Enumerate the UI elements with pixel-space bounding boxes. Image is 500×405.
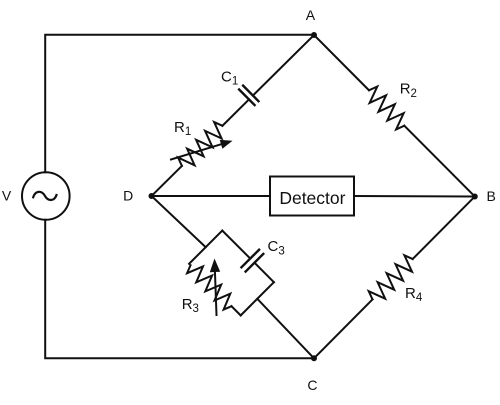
node B junction dot bbox=[472, 194, 478, 200]
wire capacitor C3 to right corner bbox=[255, 263, 274, 283]
wire node C to resistor R4 bbox=[314, 299, 373, 358]
resistor R4 zigzag bbox=[369, 255, 413, 299]
svg-text:D: D bbox=[123, 188, 133, 204]
svg-text:V: V bbox=[2, 187, 12, 203]
wire node A to resistor R2 bbox=[314, 35, 369, 90]
wire resistor R4 to node B bbox=[413, 197, 475, 260]
wire detector to node B bbox=[354, 195, 475, 198]
R3C3 block left short side bbox=[189, 231, 222, 264]
wire R3C3 block to node C bbox=[257, 299, 314, 359]
resistor R1 zigzag bbox=[178, 122, 222, 166]
wire node D to R3C3 parallel block bbox=[152, 196, 206, 247]
wire node A to capacitor C1 bbox=[253, 35, 314, 96]
wire resistor R2 to node B bbox=[404, 126, 475, 197]
wire resistor R1 to node D bbox=[152, 166, 182, 196]
node D junction dot bbox=[149, 193, 155, 199]
wire top corner to capacitor C3 bbox=[222, 231, 250, 259]
resistor R3 zigzag bbox=[187, 265, 231, 309]
svg-text:A: A bbox=[306, 7, 316, 23]
capacitor C3 bbox=[241, 250, 263, 272]
wire top rail from source to node A bbox=[45, 35, 314, 173]
svg-text:C: C bbox=[307, 377, 317, 393]
wire node D to detector bbox=[152, 195, 271, 197]
R3C3 block right short side bbox=[241, 282, 274, 315]
svg-text:B: B bbox=[487, 188, 496, 204]
node C junction dot bbox=[311, 355, 317, 361]
detector box bbox=[270, 177, 354, 216]
wire capacitor C1 to resistor R1 bbox=[222, 99, 249, 125]
wire bottom rail from source to node C bbox=[45, 220, 314, 358]
node A junction dot bbox=[311, 32, 317, 38]
AC source V bbox=[22, 172, 70, 220]
svg-text:Detector: Detector bbox=[279, 188, 345, 208]
arrow of variable resistor R1 bbox=[171, 143, 225, 159]
arrow of variable resistor R3 bbox=[215, 268, 217, 315]
resistor R2 zigzag bbox=[369, 87, 404, 130]
capacitor C1 bbox=[239, 86, 258, 106]
wire resistor R3 to bottom corner bbox=[232, 306, 241, 315]
